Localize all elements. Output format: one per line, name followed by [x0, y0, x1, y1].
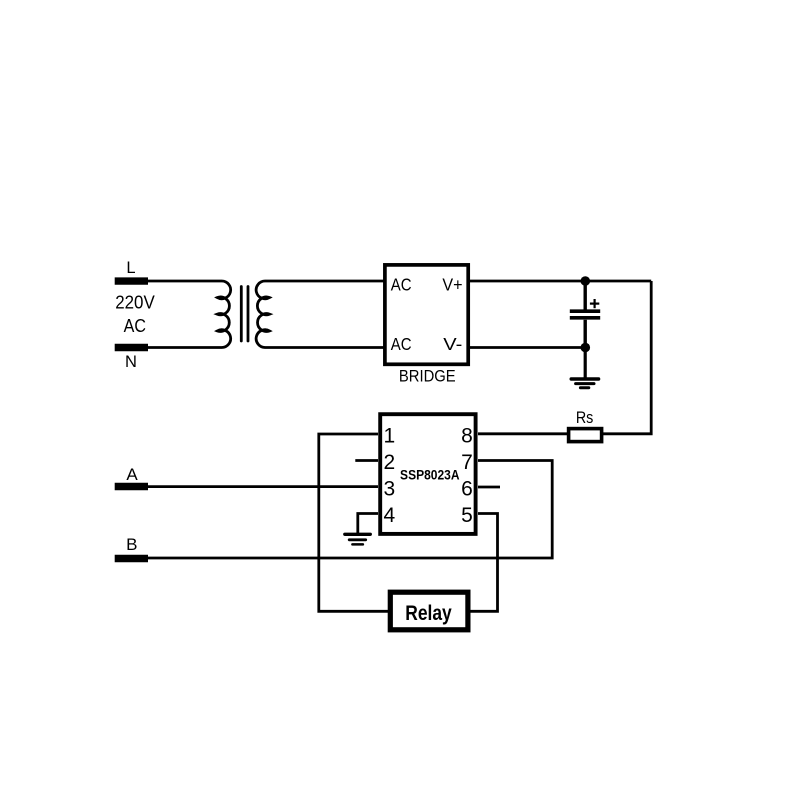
wire A to pin 3	[148, 485, 378, 488]
wire pin 4 to ground	[358, 514, 378, 534]
svg-text:4: 4	[384, 504, 396, 527]
capacitor C1 plates	[570, 311, 600, 318]
svg-text:N: N	[125, 353, 137, 371]
svg-text:3: 3	[384, 478, 396, 501]
ground symbol (capacitor)	[571, 379, 598, 388]
wire pin 1 to relay left side	[319, 434, 391, 611]
node junction on V+ rail	[581, 276, 591, 286]
svg-text:SSP8023A: SSP8023A	[400, 467, 460, 482]
wire V- (bridge V- to capacitor node)	[467, 346, 585, 349]
relay K1 box	[390, 592, 468, 630]
wire L to transformer primary + transformer T1 primary coil	[148, 281, 231, 348]
transformer T1 secondary coil + wires to bridge	[256, 281, 386, 348]
svg-text:Rs: Rs	[576, 409, 594, 427]
svg-text:Relay: Relay	[405, 601, 452, 625]
op-amp / IC U1 SSP8023A box	[380, 414, 475, 534]
svg-text:220V: 220V	[115, 293, 155, 313]
transformer T1 core	[241, 287, 248, 342]
terminal B (thick bar)	[115, 555, 148, 563]
svg-text:BRIDGE: BRIDGE	[399, 368, 456, 386]
svg-text:V-: V-	[443, 334, 462, 354]
bridge rectifier BR1 box	[385, 265, 468, 364]
svg-text:6: 6	[461, 478, 473, 501]
wire node to ground	[584, 348, 587, 378]
svg-text:5: 5	[461, 504, 473, 527]
pin 6 stub (NC)	[478, 486, 500, 489]
svg-text:2: 2	[384, 451, 396, 474]
svg-text:L: L	[126, 259, 135, 277]
wire V+ rail (bridge V+ to top-right corner)	[467, 280, 651, 283]
svg-text:AC: AC	[391, 274, 412, 294]
resistor Rs body	[569, 429, 602, 442]
svg-text:AC: AC	[124, 315, 146, 336]
svg-text:7: 7	[461, 451, 473, 474]
pin 2 stub (NC)	[355, 459, 378, 462]
svg-text:AC: AC	[391, 334, 412, 354]
terminal N (thick bar)	[115, 344, 148, 351]
svg-text:A: A	[126, 465, 138, 484]
ground symbol (pin 4)	[345, 534, 371, 544]
wire pin 7 to terminal B	[148, 461, 552, 559]
terminal A (thick bar)	[115, 483, 148, 490]
node junction on V- rail	[581, 343, 591, 353]
wire Rs to IC pin 8	[478, 432, 568, 435]
wire right vertical down to Rs	[602, 281, 651, 434]
wire pin 5 to relay right side	[467, 514, 498, 612]
svg-text:8: 8	[461, 425, 473, 448]
svg-text:B: B	[126, 535, 137, 554]
capacitor C1 plus sign	[590, 299, 599, 308]
svg-text:1: 1	[384, 425, 396, 448]
capacitor C1 bottom lead	[584, 320, 587, 348]
capacitor C1 top lead	[584, 281, 587, 310]
terminal L (thick bar)	[115, 277, 148, 284]
svg-text:V+: V+	[442, 274, 462, 294]
